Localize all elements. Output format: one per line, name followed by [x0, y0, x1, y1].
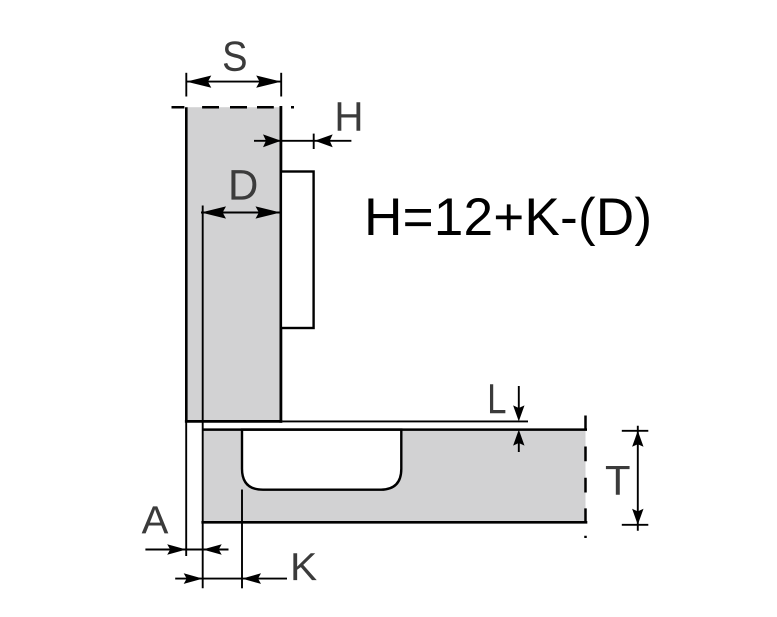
formula: [368, 197, 648, 246]
door right edge: [279, 106, 282, 423]
door panel fill: [186, 107, 281, 421]
door bottom edge: [185, 420, 282, 423]
reference line y=421: [282, 420, 528, 422]
dimension L: [513, 386, 524, 452]
cup cutout: [242, 430, 401, 490]
panel bottom edge: [201, 521, 587, 524]
dimension A: [145, 544, 228, 555]
dimension K: [175, 573, 287, 584]
dimension H: [254, 134, 351, 149]
label T: [606, 466, 630, 495]
label A: [142, 506, 169, 533]
label D: [231, 170, 256, 199]
label H: [338, 102, 361, 130]
dimension T: [622, 426, 649, 531]
label K: [293, 553, 316, 580]
dimension S: [186, 73, 281, 97]
extension line x=202.7: [202, 206, 204, 589]
extension line x=186.2: [185, 421, 187, 556]
panel top edge: [203, 428, 587, 431]
extension line x=242: [241, 490, 243, 589]
door left edge: [185, 107, 188, 421]
panel right dashed edge: [584, 416, 587, 539]
dimension D: [201, 206, 281, 218]
label S: [224, 41, 246, 71]
mounting plate: [281, 172, 314, 329]
label L: [490, 384, 505, 413]
door top dashed line: [172, 106, 295, 109]
cabinet panel fill: [203, 430, 586, 523]
